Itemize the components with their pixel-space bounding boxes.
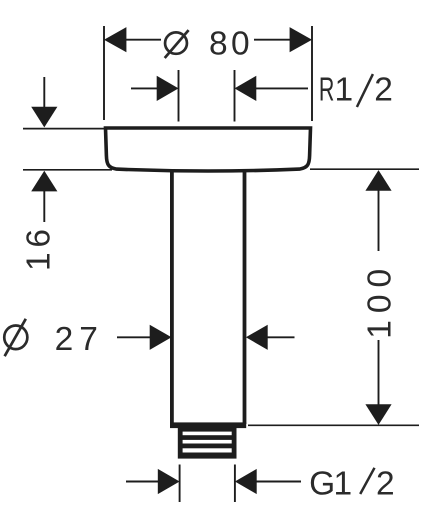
G1/2 right tail	[256, 481, 302, 483]
arrowhead Ø80 left	[104, 27, 126, 52]
svg-text:R: R	[319, 71, 334, 108]
pipe bottom step	[170, 422, 246, 428]
thread stripe 3	[183, 448, 232, 452]
flange outline	[106, 128, 311, 171]
arrowhead R1/2 right	[235, 76, 257, 101]
svg-text:16: 16	[21, 224, 58, 271]
svg-text:G: G	[309, 465, 335, 502]
svg-text:1: 1	[334, 465, 353, 502]
arrowhead Ø80 right	[290, 27, 312, 52]
dim Ø27 left tail	[117, 336, 151, 338]
label Ø80 diameter symbol	[165, 30, 189, 58]
extension line pipe bottom right	[248, 424, 419, 426]
extension line flange bottom left	[23, 169, 112, 171]
svg-text:27: 27	[55, 321, 104, 358]
G1/2 left tail	[126, 481, 159, 483]
dim 100 upper leader	[378, 191, 380, 252]
svg-text:1: 1	[335, 71, 354, 108]
extension line flange top left	[23, 128, 104, 130]
arrowhead Ø27 right	[246, 325, 268, 350]
thread stripe 2	[183, 440, 232, 444]
G1/2 extension line right	[234, 465, 236, 503]
arrowhead 100 up	[365, 170, 391, 191]
arrowhead Ø27 left	[150, 325, 172, 350]
dim 100 lower leader	[378, 340, 380, 405]
extension line R1/2 right	[234, 70, 236, 122]
arrowhead 16 down	[31, 107, 57, 128]
G1/2 extension line left	[179, 465, 181, 503]
pipe right wall	[243, 171, 247, 424]
dimension line Ø80 right tail	[254, 39, 292, 41]
dim 16 upper leader	[43, 77, 45, 107]
arrowhead G1/2 left	[158, 469, 180, 494]
svg-text:2: 2	[374, 71, 393, 108]
thread stripe 1	[183, 432, 232, 436]
svg-text:2: 2	[376, 466, 395, 503]
extension line Ø80 left	[103, 26, 105, 120]
svg-text:100: 100	[362, 262, 399, 339]
dimension line Ø80 left tail	[124, 39, 161, 41]
arrowhead 16 up	[31, 171, 57, 192]
extension line Ø80 right	[311, 26, 313, 121]
pipe left wall	[170, 171, 174, 424]
label Ø27 diameter symbol	[4, 319, 27, 356]
dimension line R1/2 right tail	[254, 87, 308, 89]
dim Ø27 right tail	[267, 336, 295, 338]
dimension line R1/2 left tail	[131, 87, 159, 89]
arrowhead R1/2 left	[157, 76, 179, 101]
dim 16 lower leader	[43, 191, 45, 223]
extension line flange bottom right	[310, 168, 419, 170]
svg-text:80: 80	[209, 26, 253, 63]
arrowhead 100 down	[365, 404, 391, 425]
thread block	[178, 428, 237, 459]
extension line R1/2 left	[178, 70, 180, 122]
arrowhead G1/2 right	[235, 469, 257, 494]
